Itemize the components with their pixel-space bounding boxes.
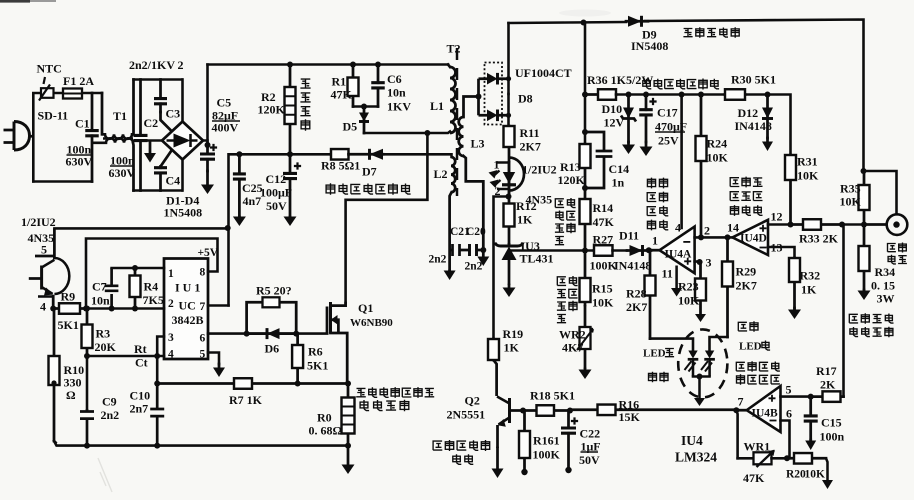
svg-text:6: 6 bbox=[786, 407, 792, 421]
svg-text:R29: R29 bbox=[736, 265, 757, 279]
svg-text:0. 68Ω: 0. 68Ω bbox=[309, 424, 343, 438]
resistor R30 5K1 bbox=[725, 89, 745, 100]
junction WR1/R20/pin6 bbox=[784, 455, 790, 461]
junction R24 top bbox=[698, 92, 704, 98]
wire LED cathodes join bbox=[693, 375, 710, 378]
label C6 10n bbox=[387, 86, 406, 100]
resistor R32 1K bbox=[789, 258, 800, 308]
resistor R7 1K bbox=[157, 378, 348, 389]
resistor R13 120K bbox=[580, 144, 591, 188]
AC plug P1 bbox=[4, 122, 34, 151]
label C22 bbox=[580, 427, 601, 441]
label C21 2n2 bbox=[429, 254, 447, 266]
LED red (charge) bbox=[701, 351, 715, 377]
transistor Q2 2N5551 bbox=[497, 397, 523, 449]
capacitor C20 2n2 bbox=[470, 244, 484, 256]
junction C9/rail bbox=[84, 443, 90, 449]
wire pin6 gate drive bbox=[208, 332, 327, 335]
label R1 47K bbox=[331, 88, 353, 102]
pin 8 bbox=[200, 267, 206, 279]
svg-text:1K: 1K bbox=[517, 213, 533, 227]
junction Vref/R9 bbox=[83, 306, 89, 312]
junction top rail / R36 branch bbox=[581, 20, 587, 26]
svg-text:R32: R32 bbox=[800, 269, 821, 283]
svg-text:D10: D10 bbox=[602, 102, 623, 116]
wire C5 vertical to top rail bbox=[206, 65, 209, 146]
svg-text:T1: T1 bbox=[113, 109, 127, 123]
svg-text:IU4B: IU4B bbox=[752, 408, 779, 420]
label 功率开关管电流 (switch current) bbox=[356, 387, 434, 398]
label R23 10K bbox=[678, 294, 700, 308]
svg-text:5: 5 bbox=[786, 383, 792, 397]
label C6 bbox=[387, 72, 402, 86]
junction D11/IU4A/R28 bbox=[646, 247, 652, 253]
label C25 bbox=[242, 181, 263, 195]
junction R3 top bbox=[84, 306, 90, 312]
resistor R0 0.68R bbox=[342, 384, 355, 446]
label 高压侧辅助电源 (HV-side aux supply) bbox=[326, 183, 411, 195]
svg-text:R20: R20 bbox=[786, 469, 806, 481]
svg-text:IN4148: IN4148 bbox=[614, 259, 651, 273]
svg-text:D7: D7 bbox=[362, 165, 377, 179]
wire Rt-Ct node bbox=[87, 355, 164, 358]
svg-text:1: 1 bbox=[168, 268, 174, 280]
resistor R29 2K7 bbox=[722, 237, 733, 337]
svg-text:C17: C17 bbox=[657, 106, 678, 120]
wire R3 to C9 bbox=[86, 356, 89, 409]
svg-text:2n2: 2n2 bbox=[101, 408, 120, 422]
svg-text:R7 1K: R7 1K bbox=[229, 393, 263, 407]
wire X-cap bottom rail bbox=[134, 189, 183, 192]
pin 7 bbox=[200, 301, 206, 313]
svg-text:R31: R31 bbox=[797, 155, 818, 169]
label opto pin 2 bbox=[495, 184, 501, 198]
svg-text:NTC: NTC bbox=[37, 62, 62, 76]
junction pin3/R23 bbox=[697, 259, 703, 265]
resistor R15 10K bbox=[580, 251, 591, 306]
label R23 bbox=[678, 280, 699, 294]
label C14 bbox=[609, 162, 630, 176]
wire feedback down bbox=[736, 410, 737, 458]
label 红 bbox=[762, 341, 770, 351]
svg-text:1/2IU2: 1/2IU2 bbox=[21, 215, 56, 229]
svg-text:5K1: 5K1 bbox=[58, 318, 79, 332]
svg-text:R35: R35 bbox=[840, 182, 861, 196]
LED indicator ring bbox=[678, 329, 727, 397]
label R2 120K bbox=[258, 103, 286, 117]
svg-text:R6: R6 bbox=[308, 345, 323, 359]
label D9 IN5408 bbox=[631, 39, 668, 53]
svg-text:2n2: 2n2 bbox=[465, 261, 483, 273]
resistor R1 47K (snubber) bbox=[348, 65, 359, 107]
label R4 bbox=[144, 280, 159, 294]
svg-text:10K: 10K bbox=[592, 296, 614, 310]
svg-text:Ct: Ct bbox=[135, 356, 148, 370]
label SD-11 bbox=[38, 109, 69, 123]
svg-text:1n: 1n bbox=[612, 176, 625, 190]
wire aux supply node bbox=[229, 154, 240, 305]
svg-text:120K: 120K bbox=[258, 103, 286, 117]
junction C10/R7 bbox=[154, 381, 160, 387]
svg-text:11: 11 bbox=[662, 267, 673, 281]
label R8 5R1 bbox=[321, 159, 360, 173]
svg-text:LED: LED bbox=[739, 341, 762, 353]
label R12 1K bbox=[517, 213, 533, 227]
capacitor C7 10n bbox=[105, 268, 119, 309]
svg-text:R23: R23 bbox=[678, 280, 699, 294]
resistor R34 0.15/3W bbox=[859, 225, 870, 291]
wire pin3 jog bbox=[157, 337, 164, 357]
svg-text:4: 4 bbox=[168, 349, 174, 361]
svg-text:12: 12 bbox=[771, 210, 783, 224]
optocoupler IU2 LED (1/2 4N35) bbox=[489, 158, 525, 197]
transformer T1 (common-mode choke) bbox=[92, 80, 134, 191]
junction R36 left bbox=[582, 92, 588, 98]
label R31 bbox=[797, 155, 818, 169]
label C5 bbox=[217, 96, 232, 110]
wire LV aux rail right bbox=[745, 95, 791, 156]
svg-text:R8 5Ω1: R8 5Ω1 bbox=[321, 159, 360, 173]
ground below C12 bbox=[284, 217, 297, 227]
label LM324 bbox=[675, 450, 717, 465]
label 插孔 bbox=[888, 255, 907, 264]
ground below TL431 bbox=[503, 285, 516, 297]
op-amp IU4A (deflux/charge voltage switch) bbox=[649, 227, 695, 274]
label 消流充电电压开关 col block r4 bbox=[647, 220, 668, 231]
svg-text:T2: T2 bbox=[447, 42, 461, 56]
junction D8 cathode lower bbox=[506, 113, 511, 118]
label R33 2K bbox=[799, 232, 839, 246]
diode D11 IN4148 bbox=[627, 245, 651, 256]
label T1 bbox=[113, 109, 127, 123]
junction L3 gnd / C20 bbox=[480, 247, 486, 253]
label x2 bbox=[178, 58, 184, 72]
label R34 3W bbox=[877, 292, 895, 306]
junction D8 anodes/L3 bbox=[476, 94, 482, 100]
label C14 1n bbox=[612, 176, 625, 190]
wire R36 branch vertical bbox=[584, 23, 587, 145]
label 充电插孔 (charging jack) bbox=[888, 243, 907, 253]
label C9 bbox=[102, 395, 117, 409]
junction R2/C12/aux bbox=[287, 151, 293, 157]
junction R10 bottom end bbox=[51, 380, 56, 385]
label 消流充电电压开关 col block r2 bbox=[647, 192, 667, 203]
resistor R11 2K7 bbox=[504, 126, 515, 161]
svg-text:R17: R17 bbox=[816, 364, 837, 378]
diode D7 bbox=[349, 149, 384, 160]
label D5 bbox=[343, 120, 358, 134]
svg-text:2K7: 2K7 bbox=[520, 140, 541, 154]
wire R10 to bottom rail bbox=[54, 441, 57, 444]
svg-text:C3: C3 bbox=[166, 107, 181, 121]
svg-text:20K: 20K bbox=[95, 340, 117, 354]
wire feedback to WR1 bbox=[738, 457, 754, 460]
diode D9 IN5408 bbox=[626, 16, 648, 27]
svg-text:1KV: 1KV bbox=[387, 100, 411, 114]
transformer T2 core bbox=[456, 48, 459, 196]
svg-text:C22: C22 bbox=[580, 427, 601, 441]
label C4 bbox=[166, 174, 181, 188]
junction C10/rail bbox=[154, 443, 160, 449]
svg-text:R13: R13 bbox=[560, 160, 581, 174]
label R15 10K bbox=[592, 296, 614, 310]
junction D12 bbox=[765, 92, 771, 98]
label R13 120K bbox=[558, 173, 586, 187]
wire LV aux rail bbox=[616, 93, 725, 96]
diode D10 12V (zener) bbox=[621, 95, 636, 143]
label WR1 47K bbox=[743, 471, 765, 485]
label 主充电电源 (main charging supply) bbox=[683, 27, 739, 38]
resistor R3 20K bbox=[82, 309, 93, 357]
wire aux supply rail bbox=[239, 153, 332, 156]
junction pin2/R24 bbox=[698, 234, 704, 240]
junction R31/pin12/R33 bbox=[788, 222, 794, 228]
label C17 470uF bbox=[655, 120, 687, 134]
svg-text:R5 20?: R5 20? bbox=[256, 284, 292, 298]
label IU4 bbox=[681, 433, 703, 448]
label C15 100n bbox=[820, 430, 845, 444]
svg-text:R161: R161 bbox=[533, 434, 560, 448]
resistor R19 1K bbox=[488, 339, 499, 360]
junction LED cathodes bbox=[697, 374, 703, 380]
diode D8 UF1004CT (dual) bbox=[479, 63, 509, 125]
label Rt bbox=[134, 342, 147, 356]
junction drain node bbox=[424, 130, 430, 136]
label 阻 2 bbox=[557, 315, 566, 323]
label D11 bbox=[619, 229, 639, 243]
wire D5 to L1 bottom node bbox=[364, 132, 450, 134]
junction IU4B out/feedback bbox=[733, 407, 739, 413]
label 2n2/1KV bbox=[129, 58, 175, 72]
junction pin5/C15 bbox=[808, 394, 814, 400]
label R18 5K1 bbox=[530, 389, 575, 403]
resistor R2 120K (startup) bbox=[285, 65, 296, 155]
label R7 1K bbox=[229, 393, 263, 407]
label 消流充电电压开关 col block r3 bbox=[647, 206, 668, 216]
svg-text:47K: 47K bbox=[743, 471, 765, 485]
wire bottom rail bbox=[54, 441, 348, 446]
label WR2 bbox=[559, 328, 586, 342]
svg-text:R33 2K: R33 2K bbox=[799, 232, 839, 246]
svg-text:R18 5K1: R18 5K1 bbox=[530, 389, 575, 403]
svg-text:D12: D12 bbox=[738, 106, 759, 120]
label R34 bbox=[875, 265, 896, 279]
resistor R5 20R loop bbox=[247, 297, 297, 333]
label C10 bbox=[130, 389, 151, 403]
label C22 50V bbox=[579, 453, 600, 467]
wire pin5 gnd bbox=[208, 353, 219, 365]
label IU4B pin 6 bbox=[786, 407, 792, 421]
junction opto cathode bbox=[506, 194, 512, 200]
label C1 100n bbox=[67, 143, 92, 157]
junction R29 top bbox=[725, 234, 731, 240]
junction ref/R14/R15 bbox=[582, 248, 588, 254]
label 启动电阻 (startup resistor) bbox=[300, 79, 310, 131]
label R17 2K bbox=[820, 378, 836, 392]
svg-text:25V: 25V bbox=[658, 134, 679, 148]
svg-text:2K: 2K bbox=[820, 378, 836, 392]
capacitor C25 4n7 bbox=[233, 154, 246, 217]
capacitor C1 100n/630V bbox=[85, 93, 99, 182]
svg-text:2n7: 2n7 bbox=[130, 402, 149, 416]
junction R3 bottom bbox=[84, 353, 90, 359]
pin 2 bbox=[168, 298, 174, 310]
label R19 bbox=[503, 327, 524, 341]
junction R4 bottom bbox=[132, 306, 138, 312]
svg-text:LED: LED bbox=[643, 348, 666, 360]
label T1 100n bbox=[110, 154, 135, 168]
label 充电 (charge) bbox=[738, 321, 758, 332]
label C25 4n7 bbox=[243, 194, 262, 208]
label R19 1K bbox=[504, 341, 520, 355]
svg-text:5: 5 bbox=[41, 243, 47, 257]
svg-text:L1: L1 bbox=[430, 99, 444, 113]
label T2 bbox=[447, 42, 461, 56]
label 电压上取样电阻 (upper voltage sense) bbox=[555, 198, 575, 208]
pin 3 bbox=[168, 332, 174, 344]
label IU4B pin 5 bbox=[786, 383, 792, 397]
wire opto collector bbox=[54, 227, 227, 230]
ground pin5 bbox=[213, 364, 225, 377]
svg-text:3: 3 bbox=[706, 256, 712, 270]
ground below D10 bbox=[622, 142, 635, 154]
svg-text:C7: C7 bbox=[92, 280, 107, 294]
label Ct bbox=[135, 356, 148, 370]
svg-text:D11: D11 bbox=[619, 229, 639, 243]
bridge rectifier D1-D4 1N5408 bbox=[162, 122, 203, 160]
resistor R4 7K5 bbox=[130, 268, 141, 309]
resistor R20 10K bbox=[787, 453, 826, 464]
label R16 bbox=[619, 398, 640, 412]
label R6 bbox=[308, 345, 323, 359]
junction R5 left bbox=[244, 331, 250, 337]
label 充电电流 (charging current) bbox=[849, 313, 893, 324]
label R32 1K bbox=[801, 283, 817, 297]
label R11 2K7 bbox=[520, 140, 541, 154]
label R13 bbox=[560, 160, 581, 174]
svg-text:5K1: 5K1 bbox=[307, 359, 328, 373]
label IU4A pin 1 bbox=[652, 234, 658, 248]
op-amp IU4B (current feedback amp) bbox=[736, 386, 780, 432]
svg-text:2: 2 bbox=[178, 58, 184, 72]
ground main (bottom) bbox=[342, 446, 355, 474]
svg-text:UC: UC bbox=[179, 299, 196, 313]
label UC bbox=[179, 299, 196, 313]
resistor R35 10K bbox=[859, 171, 870, 225]
label IU4B pin 7 bbox=[738, 395, 744, 409]
wire pin6 feedback bbox=[781, 421, 790, 459]
resistor R161 100K bbox=[519, 411, 530, 471]
wire pin34 to C10 bbox=[156, 356, 159, 384]
junction bridge+/C5 bbox=[205, 142, 211, 148]
capacitor C12 100uF/50V bbox=[283, 154, 301, 217]
svg-text:IN4148: IN4148 bbox=[735, 119, 772, 133]
svg-text:R11: R11 bbox=[520, 126, 540, 140]
svg-text:1/2IU2: 1/2IU2 bbox=[522, 163, 557, 177]
wire R27 to D11 bbox=[613, 249, 628, 252]
ground below WR2 bbox=[579, 369, 592, 379]
wire opto cathode to R19 branch bbox=[494, 197, 509, 340]
resistor R28 2K7 bbox=[645, 250, 656, 338]
label D10 12V bbox=[604, 116, 625, 130]
wire TL431 ref rail bbox=[509, 249, 594, 252]
capacitor C22 1uF/50V bbox=[561, 411, 578, 468]
label R0 bbox=[317, 411, 332, 425]
svg-text:3W: 3W bbox=[877, 292, 895, 306]
label 3842B bbox=[172, 313, 204, 327]
svg-text:TL431: TL431 bbox=[520, 252, 554, 266]
svg-text:W6NB90: W6NB90 bbox=[350, 317, 393, 329]
wire pin1 comp bbox=[112, 267, 164, 270]
label L1 bbox=[430, 99, 444, 113]
resistor R12 1K bbox=[504, 197, 515, 244]
wire C3 to bridge bbox=[161, 112, 172, 131]
svg-text:D6: D6 bbox=[265, 342, 280, 356]
svg-text:10K: 10K bbox=[840, 195, 862, 209]
capacitor C6 10n/1KV bbox=[371, 65, 385, 107]
resistor R16 15K bbox=[570, 405, 736, 416]
label 样电 2 bbox=[557, 301, 577, 311]
svg-text:2: 2 bbox=[168, 298, 174, 310]
label C22 1uF bbox=[581, 440, 601, 454]
wire pin5 bbox=[781, 395, 811, 398]
junction pin4 feed bbox=[679, 92, 685, 98]
svg-text:100μF: 100μF bbox=[260, 186, 292, 200]
svg-text:UF1004CT: UF1004CT bbox=[515, 66, 572, 80]
svg-text:50V: 50V bbox=[266, 199, 287, 213]
label R16 15K bbox=[619, 410, 641, 424]
svg-text:R34: R34 bbox=[875, 265, 896, 279]
svg-text:5: 5 bbox=[200, 349, 206, 361]
inductor L1 (T2 primary) bbox=[448, 65, 456, 134]
svg-text:F1 2A: F1 2A bbox=[63, 74, 94, 88]
svg-text:R0: R0 bbox=[317, 411, 332, 425]
label 1N5408 bbox=[164, 206, 203, 220]
svg-text:C6: C6 bbox=[387, 72, 402, 86]
junction R33/R17 bbox=[839, 222, 845, 228]
resistor R8 5R1 bbox=[331, 149, 349, 160]
svg-text:WR2: WR2 bbox=[559, 328, 586, 342]
label 流鉴别 (comparator caption r2) bbox=[730, 192, 762, 201]
resistor R23 10K bbox=[695, 262, 706, 314]
diode D5 bbox=[359, 107, 369, 134]
wire WR1 to R20 bbox=[772, 457, 788, 460]
svg-text:L2: L2 bbox=[434, 167, 448, 181]
label 取样电阻 (sense resistor) bbox=[850, 327, 893, 337]
LED green (deflux) bbox=[685, 351, 699, 377]
svg-text:120K: 120K bbox=[558, 173, 586, 187]
label IU4D pin 13 bbox=[771, 241, 783, 255]
junction D10 bbox=[626, 92, 632, 98]
ground below Q2 emitter bbox=[492, 448, 504, 478]
junction C7 bottom bbox=[109, 306, 115, 312]
svg-text:Q2: Q2 bbox=[465, 394, 480, 408]
label R20 10K bbox=[805, 469, 826, 481]
label 电流负反馈 (current feedback) bbox=[433, 440, 490, 451]
ground below L2 bbox=[444, 271, 456, 281]
C22 bottom terminal bbox=[565, 467, 571, 473]
svg-text:100K: 100K bbox=[533, 448, 561, 462]
optocoupler IU2 transistor (1/2 4N35) bbox=[29, 228, 70, 308]
potentiometer WR1 47K bbox=[754, 450, 775, 467]
label C7 10n bbox=[91, 294, 110, 308]
label IU1 bbox=[175, 281, 200, 295]
junction R1 top bbox=[350, 62, 356, 68]
wire R28 to LED green bbox=[650, 339, 693, 350]
wire X-cap top rail bbox=[134, 78, 183, 81]
label IU4A pin 3 bbox=[706, 256, 712, 270]
label C21 bbox=[450, 226, 470, 238]
